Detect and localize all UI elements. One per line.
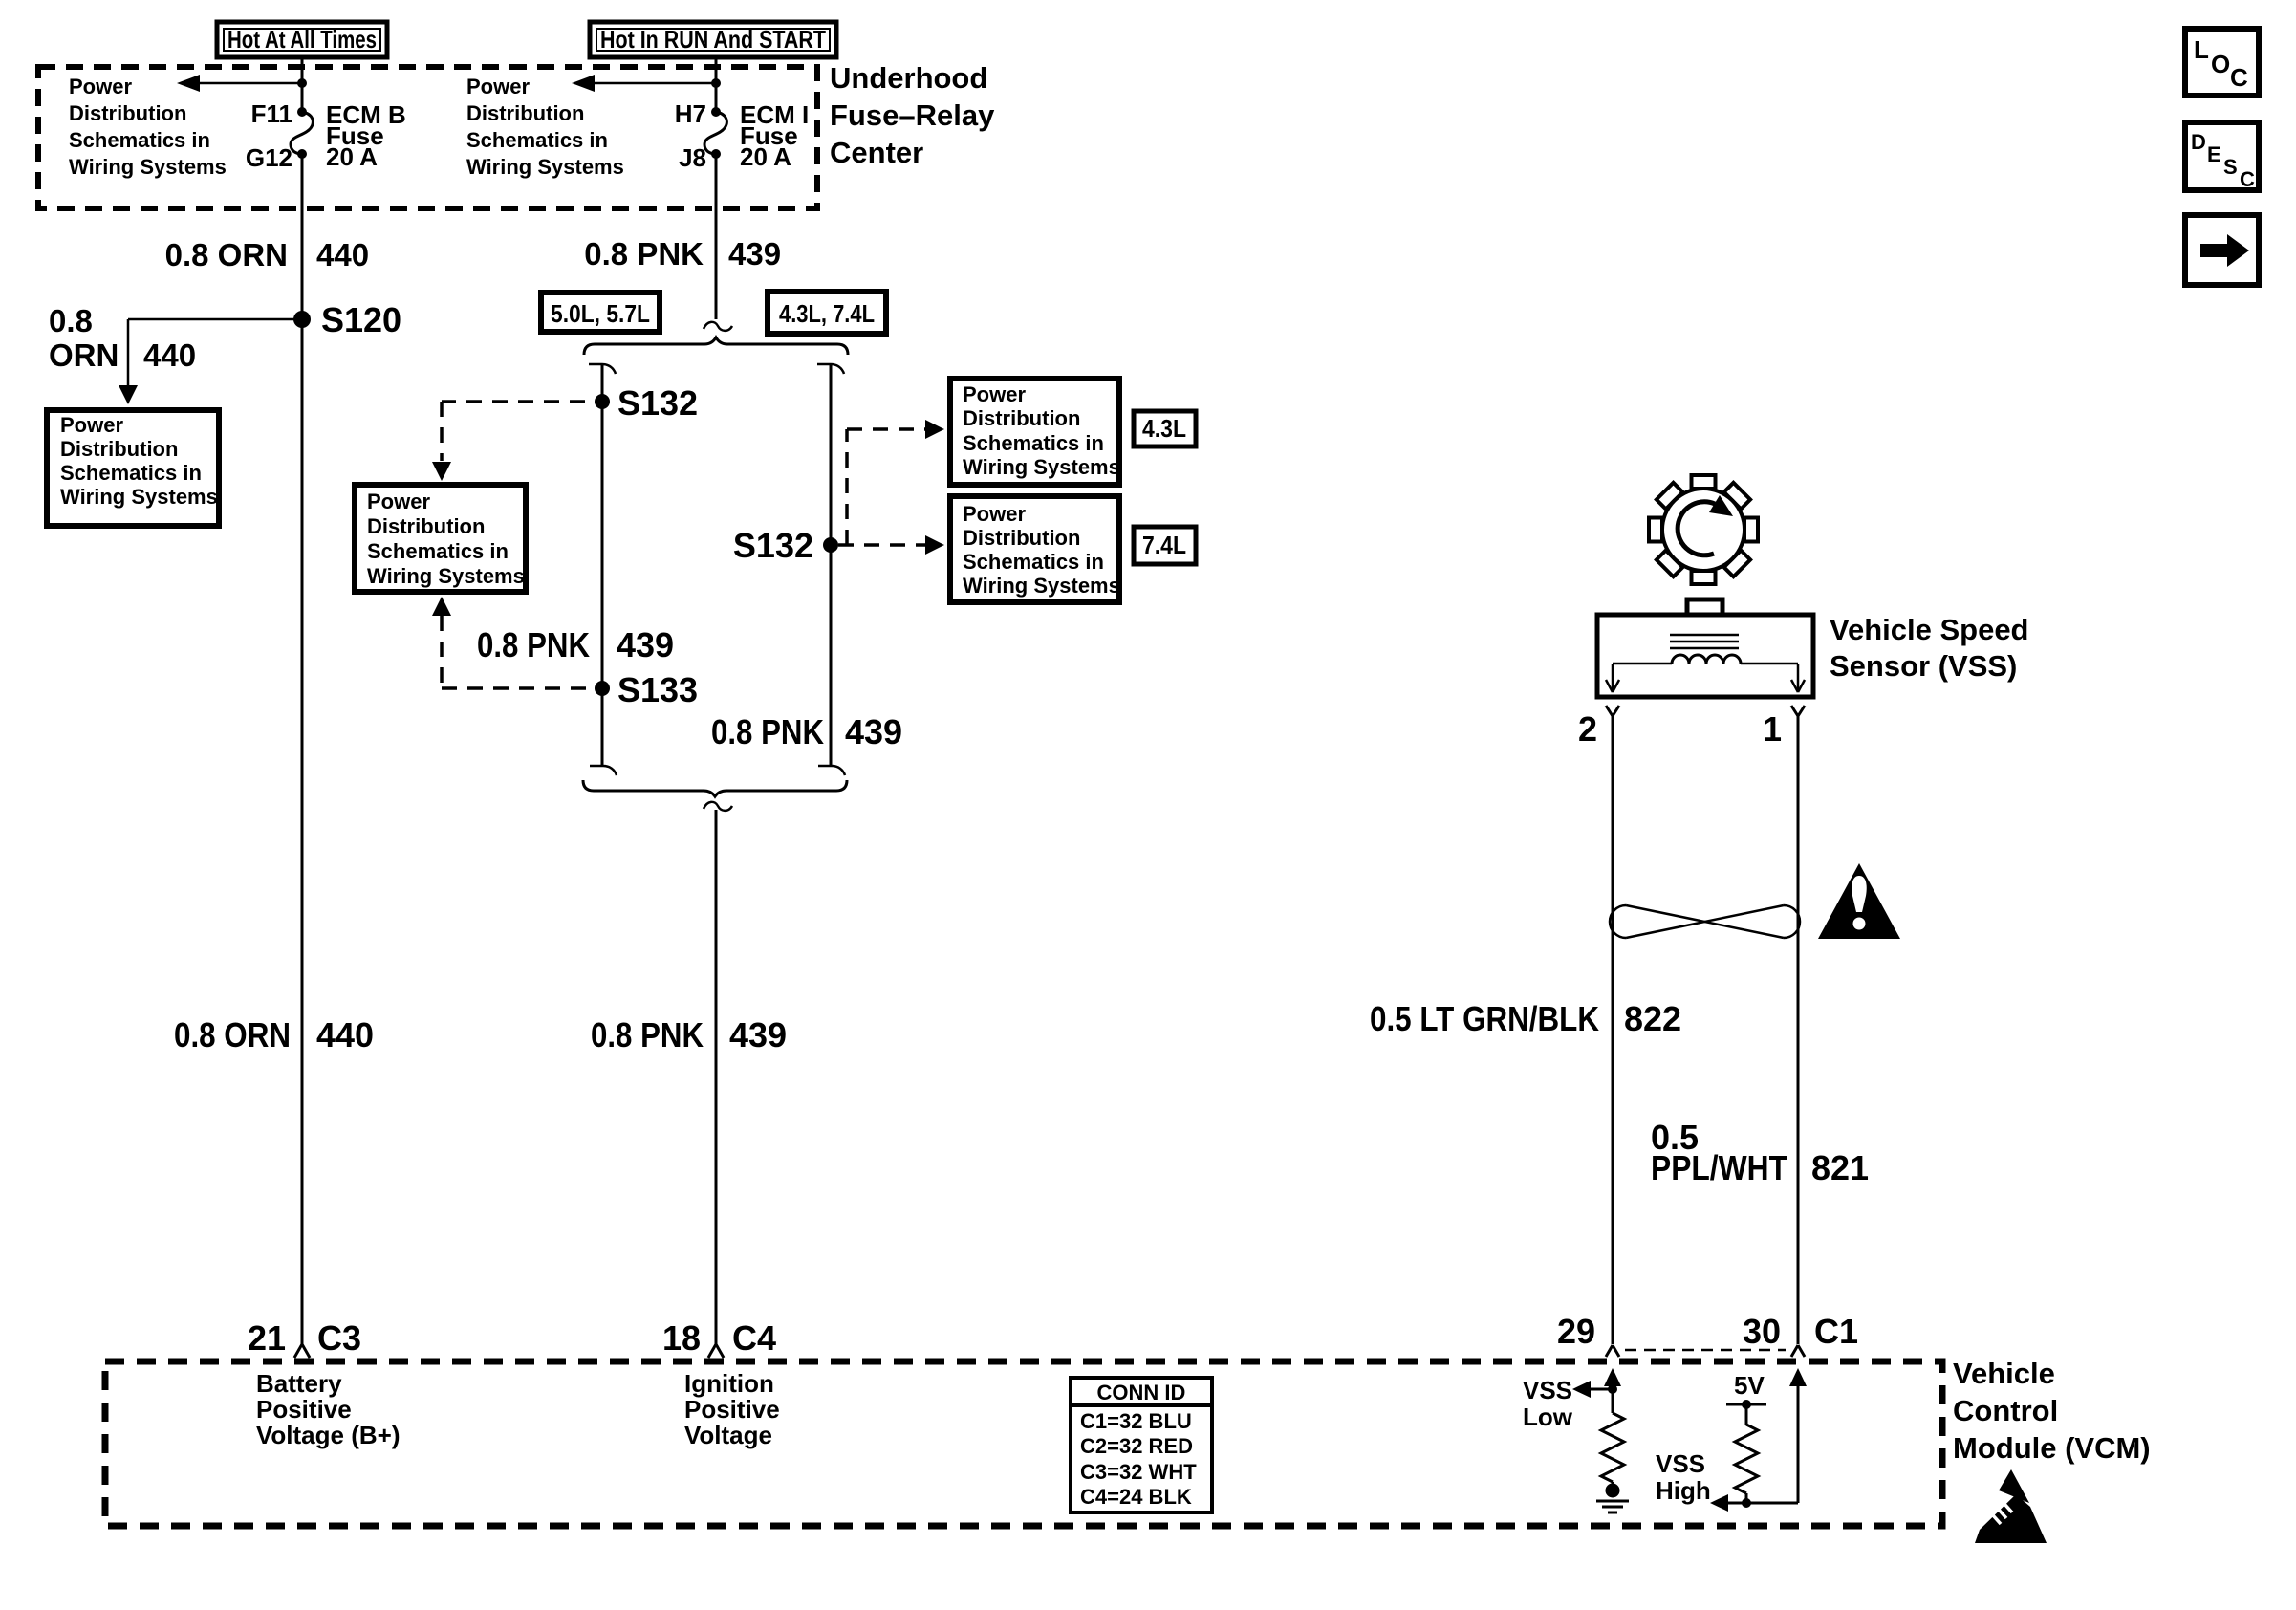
resistor (VSS high pull-up) — [1735, 1425, 1758, 1493]
wire hook left branch top — [589, 364, 616, 374]
connector pin 1 — [1763, 706, 1805, 749]
connector pin 18 C4 — [662, 1318, 776, 1358]
connector pin 2 — [1578, 706, 1619, 749]
svg-text:4.3L: 4.3L — [1142, 414, 1186, 443]
wire break hook (top of brace) — [704, 322, 732, 331]
svg-text:Wiring Systems: Wiring Systems — [367, 564, 525, 588]
svg-text:CONN ID: CONN ID — [1097, 1381, 1186, 1404]
brace top (split to engine variants) — [584, 337, 848, 355]
svg-text:Voltage: Voltage — [684, 1421, 772, 1449]
svg-text:20 A: 20 A — [326, 142, 378, 171]
svg-text:ORN: ORN — [49, 337, 119, 373]
svg-text:C: C — [2240, 167, 2255, 191]
svg-text:Power: Power — [963, 382, 1026, 406]
svg-text:Power: Power — [69, 75, 132, 98]
label Underhood Fuse-Relay Center — [830, 61, 995, 169]
VSS High node and arrows — [1710, 1368, 1807, 1512]
vss sensor tab — [1687, 599, 1722, 615]
label Vehicle Speed Sensor (VSS) — [1830, 613, 2029, 683]
twisted pair symbol — [1610, 905, 1800, 938]
svg-text:Low: Low — [1523, 1403, 1573, 1431]
svg-text:C: C — [2230, 63, 2248, 92]
wire 439 upper vertical run — [715, 154, 718, 319]
svg-text:Schematics in: Schematics in — [367, 539, 509, 563]
svg-text:21: 21 — [248, 1318, 286, 1358]
fuse name ECM B Fuse 20 A — [326, 100, 406, 171]
svg-text:C3: C3 — [317, 1318, 361, 1358]
resistor (VSS low) — [1601, 1413, 1624, 1482]
svg-text:821: 821 — [1811, 1148, 1869, 1187]
wire 821 vertical — [1797, 716, 1800, 1344]
box forward arrow — [2185, 215, 2259, 285]
wire label 0.8 ORN 440 (bottom) — [174, 1015, 374, 1055]
svg-text:VSS: VSS — [1523, 1376, 1572, 1404]
fuse name ECM I Fuse 20 A — [740, 100, 809, 171]
svg-text:0.8 PNK: 0.8 PNK — [584, 236, 704, 272]
svg-text:S: S — [2223, 155, 2238, 179]
svg-text:439: 439 — [728, 236, 781, 272]
wire label 0.5 LT GRN/BLK 822 — [1370, 999, 1681, 1038]
wire branch from S120 to power distribution ref — [119, 319, 302, 404]
dashed connector link 29-30 — [1625, 1349, 1786, 1352]
svg-text:J8: J8 — [679, 143, 706, 172]
dashed box Underhood Fuse-Relay Center — [38, 67, 817, 208]
wire break hook (below brace) — [704, 802, 732, 811]
svg-text:Underhood: Underhood — [830, 61, 987, 95]
wire hook left branch bottom — [590, 766, 617, 775]
dashed ref from S132 right to 7.4L box — [838, 535, 944, 555]
svg-text:440: 440 — [316, 1015, 374, 1055]
svg-text:0.8 PNK: 0.8 PNK — [711, 712, 824, 751]
svg-text:S132: S132 — [733, 526, 813, 565]
vss sensor body box — [1597, 615, 1813, 697]
svg-text:7.4L: 7.4L — [1142, 531, 1186, 559]
fuse H7/J8 ECM I 20A — [704, 107, 726, 159]
wire label 0.8 PNK 439 (top) — [584, 236, 781, 272]
svg-text:S120: S120 — [321, 300, 401, 339]
svg-text:Wiring Systems: Wiring Systems — [963, 455, 1120, 479]
svg-text:Power: Power — [60, 413, 123, 437]
svg-text:0.8 ORN: 0.8 ORN — [165, 237, 288, 272]
label box "Hot In RUN And START" — [590, 22, 836, 57]
svg-text:Module (VCM): Module (VCM) — [1953, 1431, 2151, 1465]
dashed box Vehicle Control Module — [105, 1361, 1942, 1526]
splice S120 — [293, 300, 401, 339]
svg-text:C1: C1 — [1814, 1312, 1858, 1351]
wire arrow to power distribution (right) — [572, 75, 716, 92]
sensor core lines — [1670, 635, 1739, 648]
svg-text:Wiring Systems: Wiring Systems — [60, 485, 218, 509]
label box 4.3L, 7.4L — [768, 292, 886, 334]
svg-text:C2=32 RED: C2=32 RED — [1080, 1434, 1193, 1458]
wire 439 left branch vertical — [601, 364, 604, 766]
svg-text:5V: 5V — [1734, 1371, 1765, 1400]
svg-text:High: High — [1656, 1476, 1711, 1505]
svg-text:Fuse–Relay: Fuse–Relay — [830, 98, 995, 132]
splice S132 (5.0L, 5.7L) — [595, 383, 698, 423]
wire label 0.8 PNK 439 (left branch) — [477, 625, 674, 664]
svg-text:E: E — [2207, 142, 2221, 166]
box LOC — [2185, 29, 2259, 96]
svg-text:0.8 PNK: 0.8 PNK — [477, 625, 590, 664]
label VSS High — [1656, 1449, 1711, 1505]
node junction at F11 feed — [297, 78, 307, 88]
svg-text:Schematics in: Schematics in — [69, 128, 210, 152]
VSS Low input arrow — [1572, 1368, 1621, 1413]
svg-text:Center: Center — [830, 136, 923, 169]
svg-text:20 A: 20 A — [740, 142, 791, 171]
svg-text:Battery: Battery — [256, 1369, 342, 1398]
svg-text:Hot In RUN And START: Hot In RUN And START — [600, 25, 826, 54]
svg-text:Distribution: Distribution — [69, 101, 186, 125]
svg-text:440: 440 — [143, 337, 196, 373]
connector pin 29 — [1557, 1312, 1619, 1357]
svg-text:H7: H7 — [675, 99, 706, 128]
wire hook right branch top — [817, 364, 844, 374]
brace bottom (merge engine variants) — [583, 780, 847, 796]
svg-text:Sensor (VSS): Sensor (VSS) — [1830, 649, 2017, 683]
svg-text:5.0L, 5.7L: 5.0L, 5.7L — [551, 299, 650, 328]
reluctor gear icon — [1649, 475, 1758, 584]
svg-text:VSS: VSS — [1656, 1449, 1705, 1478]
svg-text:C1=32 BLU: C1=32 BLU — [1080, 1409, 1192, 1433]
svg-text:0.8 ORN: 0.8 ORN — [174, 1015, 291, 1055]
ESD sensitivity symbol — [1975, 1469, 2047, 1543]
svg-text:Schematics in: Schematics in — [963, 550, 1104, 574]
text power distribution ref (left fuse) — [69, 75, 227, 179]
dashed ref from S132 right to 4.3L box — [847, 420, 944, 545]
svg-text:F11: F11 — [251, 99, 292, 128]
svg-text:18: 18 — [662, 1318, 701, 1358]
label VSS Low — [1523, 1376, 1573, 1431]
CONN ID table — [1071, 1378, 1212, 1512]
warning triangle symbol — [1818, 863, 1900, 939]
wire from Hot In RUN into fuse box — [715, 56, 718, 112]
svg-text:Wiring Systems: Wiring Systems — [466, 155, 624, 179]
svg-text:Power: Power — [466, 75, 530, 98]
label Battery Positive Voltage — [256, 1369, 400, 1449]
splice S132 (4.3L, 7.4L) — [733, 526, 838, 565]
label box 5.0L, 5.7L — [541, 293, 660, 332]
svg-text:Wiring Systems: Wiring Systems — [69, 155, 227, 179]
text power distribution ref (right fuse) — [466, 75, 624, 179]
svg-text:Positive: Positive — [684, 1395, 780, 1424]
box power distribution ref A — [47, 410, 219, 526]
dashed ref from S132 left to box — [432, 402, 585, 481]
wire label 0.8 PNK 439 (right branch) — [711, 712, 902, 751]
wire 822 vertical — [1612, 716, 1614, 1344]
svg-text:C4: C4 — [732, 1318, 776, 1358]
svg-text:S133: S133 — [617, 670, 698, 709]
svg-text:0.5 LT GRN/BLK: 0.5 LT GRN/BLK — [1370, 999, 1599, 1038]
dashed ref from S133 up to box — [432, 597, 586, 688]
svg-text:2: 2 — [1578, 709, 1597, 749]
5V supply bar — [1726, 1400, 1766, 1425]
svg-text:Schematics in: Schematics in — [60, 461, 202, 485]
svg-text:Positive: Positive — [256, 1395, 352, 1424]
svg-text:Distribution: Distribution — [963, 406, 1080, 430]
svg-text:0.8 PNK: 0.8 PNK — [591, 1015, 704, 1055]
box DESC — [2185, 122, 2259, 191]
wire label 0.8 ORN 440 (top) — [165, 237, 369, 272]
ground symbol — [1596, 1482, 1629, 1512]
wire 440 left vertical run — [301, 154, 304, 1344]
svg-text:Schematics in: Schematics in — [466, 128, 608, 152]
svg-text:C3=32 WHT: C3=32 WHT — [1080, 1460, 1197, 1484]
label box 7.4L — [1134, 527, 1196, 564]
svg-text:822: 822 — [1624, 999, 1681, 1038]
svg-text:C4=24 BLK: C4=24 BLK — [1080, 1485, 1192, 1509]
label Ignition Positive Voltage — [684, 1369, 780, 1449]
label box 4.3L — [1134, 411, 1196, 446]
svg-text:PPL/WHT: PPL/WHT — [1651, 1148, 1787, 1187]
fuse F11/G12 ECM B 20A — [291, 107, 313, 159]
wire label 0.8 PNK 439 (bottom) — [591, 1015, 787, 1055]
box power distribution ref B — [355, 485, 526, 592]
svg-text:4.3L, 7.4L: 4.3L, 7.4L — [779, 299, 875, 328]
svg-text:Control: Control — [1953, 1394, 2058, 1427]
svg-text:Wiring Systems: Wiring Systems — [963, 574, 1120, 598]
svg-text:Distribution: Distribution — [963, 526, 1080, 550]
wire 439 lower vertical run — [715, 810, 718, 1344]
svg-text:439: 439 — [729, 1015, 787, 1055]
svg-text:Voltage (B+): Voltage (B+) — [256, 1421, 400, 1449]
svg-text:S132: S132 — [617, 383, 698, 423]
box power distribution ref C — [950, 379, 1120, 485]
svg-text:439: 439 — [617, 625, 674, 664]
label box "Hot At All Times" — [217, 22, 387, 57]
box power distribution ref D — [950, 496, 1120, 602]
node junction at H7 feed — [711, 78, 721, 88]
svg-text:O: O — [2211, 50, 2230, 78]
svg-text:0.8: 0.8 — [49, 303, 93, 338]
svg-text:30: 30 — [1743, 1312, 1781, 1351]
splice S133 — [595, 670, 698, 709]
svg-text:L: L — [2194, 35, 2209, 64]
label Vehicle Control Module (VCM) — [1953, 1357, 2151, 1465]
svg-text:G12: G12 — [246, 143, 292, 172]
svg-text:Schematics in: Schematics in — [963, 431, 1104, 455]
svg-text:Distribution: Distribution — [466, 101, 584, 125]
wire label 0.5 PPL/WHT 821 — [1651, 1118, 1869, 1187]
svg-text:1: 1 — [1763, 709, 1782, 749]
svg-text:Hot At All Times: Hot At All Times — [227, 25, 377, 54]
wire from Hot At All Times into fuse box — [301, 56, 304, 112]
connector pin 21 C3 — [248, 1318, 361, 1358]
svg-text:Vehicle: Vehicle — [1953, 1357, 2055, 1390]
connector pin 30 C1 — [1743, 1312, 1858, 1357]
svg-text:Power: Power — [963, 502, 1026, 526]
wire label 0.8 ORN 440 (branch) — [49, 303, 196, 373]
svg-text:439: 439 — [845, 712, 902, 751]
svg-text:Vehicle Speed: Vehicle Speed — [1830, 613, 2029, 646]
svg-text:Distribution: Distribution — [367, 514, 485, 538]
svg-text:440: 440 — [316, 237, 369, 272]
wire hook right branch bottom — [818, 766, 845, 775]
svg-text:D: D — [2191, 130, 2206, 154]
sensor coil winding — [1672, 655, 1741, 664]
sensor internal wires with arrows — [1606, 664, 1805, 692]
wire arrow to power distribution (left) — [177, 75, 302, 92]
svg-text:29: 29 — [1557, 1312, 1595, 1351]
wire 439 right branch vertical — [830, 364, 833, 766]
svg-text:Ignition: Ignition — [684, 1369, 774, 1398]
svg-text:Power: Power — [367, 490, 430, 513]
svg-text:Distribution: Distribution — [60, 437, 178, 461]
